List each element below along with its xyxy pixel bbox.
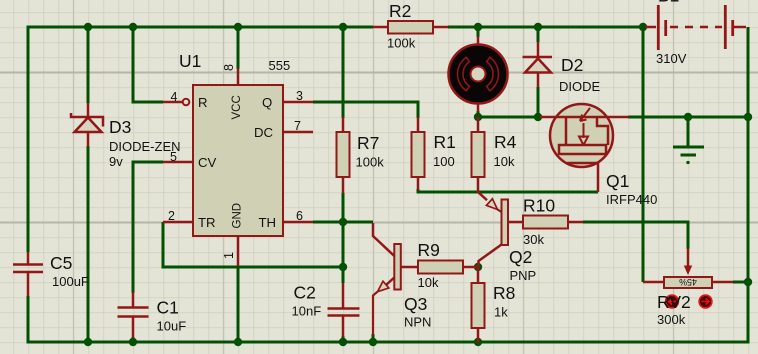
- svg-text:1: 1: [222, 252, 236, 259]
- wire R7 top branch: [342, 27, 345, 118]
- svg-text:R1: R1: [434, 132, 456, 152]
- svg-text:1k: 1k: [494, 305, 508, 320]
- resistor R8: [472, 267, 516, 343]
- svg-text:Q1: Q1: [606, 171, 629, 191]
- svg-text:3: 3: [296, 89, 303, 103]
- svg-text:10k: 10k: [494, 154, 515, 169]
- svg-text:PNP: PNP: [510, 268, 537, 283]
- svg-text:D2: D2: [561, 55, 583, 75]
- svg-text:555: 555: [269, 58, 291, 73]
- speaker LS: [449, 36, 508, 112]
- wire drain net right segment: [628, 116, 748, 119]
- svg-text:100: 100: [433, 154, 455, 169]
- svg-text:300k: 300k: [657, 312, 686, 327]
- wire R7 bottom to TH/TR/C2: [342, 193, 345, 283]
- wire top rail right of R2: [448, 26, 643, 29]
- svg-text:100k: 100k: [356, 155, 385, 170]
- pin 3 Q stub: [283, 101, 313, 104]
- resistor R1: [412, 117, 456, 190]
- wire pin3 to R1: [313, 102, 418, 118]
- svg-text:U1: U1: [179, 51, 201, 71]
- svg-text:100k: 100k: [387, 36, 416, 51]
- svg-text:2: 2: [168, 209, 175, 223]
- wire left rail lower: [27, 296, 30, 344]
- svg-text:DC: DC: [254, 125, 274, 140]
- wire ground stub: [687, 117, 690, 146]
- wire pin6 TH segment: [313, 221, 373, 224]
- svg-text:C5: C5: [50, 253, 72, 273]
- wire Q3 emitter down: [372, 334, 375, 342]
- wire vcc pin8 stub: [237, 27, 240, 69]
- wire pot right to right rail: [733, 281, 748, 284]
- transistor Q3 NPN: [373, 223, 431, 335]
- svg-text:9v: 9v: [109, 154, 123, 169]
- svg-text:RV2: RV2: [657, 292, 691, 312]
- wire top rail left: [28, 26, 373, 29]
- svg-text:10uF: 10uF: [157, 319, 187, 334]
- op-amp U1 555 IC body: [179, 51, 290, 236]
- wire left rail upper: [27, 26, 30, 253]
- pin labels: [198, 95, 276, 230]
- pin 1 GND stub: [237, 236, 240, 266]
- svg-text:CV: CV: [198, 155, 217, 170]
- svg-text:B1: B1: [658, 0, 679, 6]
- resistor R4: [472, 117, 517, 192]
- resistor R9: [401, 240, 478, 290]
- svg-text:Q3: Q3: [404, 294, 427, 314]
- svg-text:10k: 10k: [418, 275, 439, 290]
- wire pin1 GND down: [237, 266, 240, 342]
- svg-text:8: 8: [222, 64, 236, 71]
- wire R1 bottom to Q1 source: [418, 189, 598, 192]
- potentiometer RV2: [643, 248, 733, 327]
- svg-text:4: 4: [171, 90, 178, 104]
- capacitor C2: [292, 283, 360, 338]
- svg-text:45%: 45%: [679, 277, 697, 287]
- svg-text:DIODE: DIODE: [559, 79, 601, 94]
- svg-text:R8: R8: [493, 283, 515, 303]
- svg-text:100uF: 100uF: [52, 274, 89, 289]
- wire D2 top: [537, 27, 540, 42]
- ground: [673, 147, 704, 163]
- wire battery to pot-left vertical: [642, 27, 645, 282]
- pin 8 VCC stub: [237, 68, 240, 85]
- svg-text:R7: R7: [357, 133, 379, 153]
- pin 5 CV stub: [163, 161, 194, 164]
- pin numbers: [168, 64, 303, 259]
- svg-text:C2: C2: [294, 283, 316, 303]
- svg-text:30k: 30k: [523, 232, 544, 247]
- wire pin2 TR loop: [163, 222, 343, 267]
- wire speaker bottom: [477, 111, 480, 117]
- svg-text:R4: R4: [494, 132, 517, 152]
- svg-text:D3: D3: [109, 117, 131, 137]
- transistor Q1 MOSFET IRFP440: [540, 104, 657, 207]
- svg-text:Q: Q: [262, 95, 272, 110]
- svg-text:R10: R10: [523, 196, 555, 216]
- wire D3 branch upper: [87, 27, 90, 103]
- capacitor C5: [13, 252, 89, 296]
- wire C1 bottom: [132, 337, 135, 342]
- battery B1: [645, 0, 746, 66]
- resistor R7: [337, 117, 385, 193]
- svg-text:Q2: Q2: [509, 247, 532, 267]
- diode D3 zener: [71, 103, 181, 169]
- svg-text:NPN: NPN: [404, 315, 431, 330]
- transistor Q2 PNP: [478, 192, 536, 283]
- svg-text:R2: R2: [389, 1, 411, 21]
- svg-text:10nF: 10nF: [292, 304, 322, 319]
- svg-text:310V: 310V: [656, 51, 687, 66]
- svg-text:6: 6: [296, 209, 303, 223]
- svg-text:R9: R9: [418, 240, 440, 260]
- wire right rail: [747, 27, 750, 344]
- svg-text:7: 7: [294, 119, 301, 133]
- wire speaker top: [477, 27, 480, 37]
- wire pin5 CV to C1: [133, 162, 163, 293]
- wire D3 branch lower: [87, 146, 90, 342]
- wire D2 bottom: [537, 87, 540, 117]
- wire Q2 base R10 net: [583, 222, 688, 249]
- pin 4 R stub: [163, 99, 189, 106]
- svg-text:DIODE-ZEN: DIODE-ZEN: [109, 139, 181, 154]
- pin 2 TR stub: [163, 221, 194, 224]
- svg-text:C1: C1: [157, 298, 179, 318]
- svg-text:R: R: [198, 95, 208, 110]
- wire gate net left segment: [478, 116, 538, 119]
- resistor R2: [373, 1, 448, 51]
- svg-text:GND: GND: [232, 203, 244, 229]
- svg-text:TH: TH: [259, 215, 277, 230]
- pin 7 DC stub: [283, 131, 313, 134]
- svg-text:TR: TR: [198, 215, 216, 230]
- wire reset pin4 branch: [133, 27, 163, 102]
- wire C2 bottom: [342, 336, 345, 342]
- svg-text:IRFP440: IRFP440: [606, 192, 657, 207]
- capacitor C1: [118, 292, 187, 338]
- pin 6 TH stub: [283, 221, 313, 224]
- diode D2: [523, 42, 601, 94]
- wire bottom rail: [27, 341, 750, 344]
- resistor R10: [523, 196, 583, 248]
- svg-text:VCC: VCC: [231, 95, 243, 119]
